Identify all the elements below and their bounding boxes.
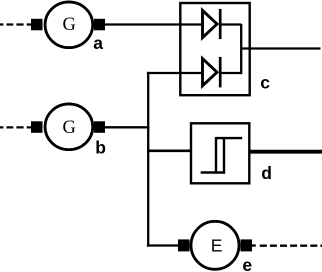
output wire from rectifier c — [241, 47, 320, 49]
dashed output wire from machine e — [260, 245, 322, 247]
vertical bus wire — [147, 72, 149, 247]
generator G (machine a) — [45, 2, 93, 48]
terminal square left of machine e — [178, 239, 190, 251]
svg-text:a: a — [93, 33, 103, 53]
terminal square left of generator a — [31, 19, 43, 31]
terminal square right of machine e — [241, 239, 253, 251]
rectifier box c — [180, 3, 249, 95]
machine E (e) — [191, 221, 239, 269]
wire from bus to limiter d — [147, 150, 191, 153]
wire from diode D2 cathode — [220, 72, 241, 74]
dashed input wire to generator b — [0, 126, 31, 128]
wire from bus to machine e — [147, 244, 178, 246]
hysteresis symbol — [201, 137, 243, 174]
wire from diode D1 cathode — [220, 23, 241, 25]
thick output wire from limiter d — [249, 150, 322, 154]
svg-text:d: d — [261, 163, 272, 183]
dashed input wire to generator a — [0, 23, 31, 25]
terminal square right of generator b — [94, 121, 105, 133]
svg-text:E: E — [211, 236, 223, 256]
wire from bus to diode D2 anode — [147, 72, 203, 74]
generator G (machine b) — [45, 104, 93, 150]
terminal square right of generator a — [94, 19, 105, 31]
limiter box d — [191, 123, 249, 183]
wire joining diode D1 and D2 outputs — [240, 24, 242, 74]
diode D1 — [203, 9, 221, 39]
stub wire from machine e terminal — [252, 244, 256, 246]
svg-text:G: G — [63, 118, 76, 138]
wire from generator b to bus junction — [105, 126, 149, 128]
svg-text:G: G — [63, 15, 76, 35]
svg-text:c: c — [260, 73, 270, 93]
diode D2 — [203, 57, 221, 88]
terminal square left of generator b — [31, 121, 43, 133]
svg-text:e: e — [242, 255, 252, 272]
wire from generator a to diode D1 anode — [105, 23, 203, 25]
svg-text:b: b — [95, 137, 106, 157]
